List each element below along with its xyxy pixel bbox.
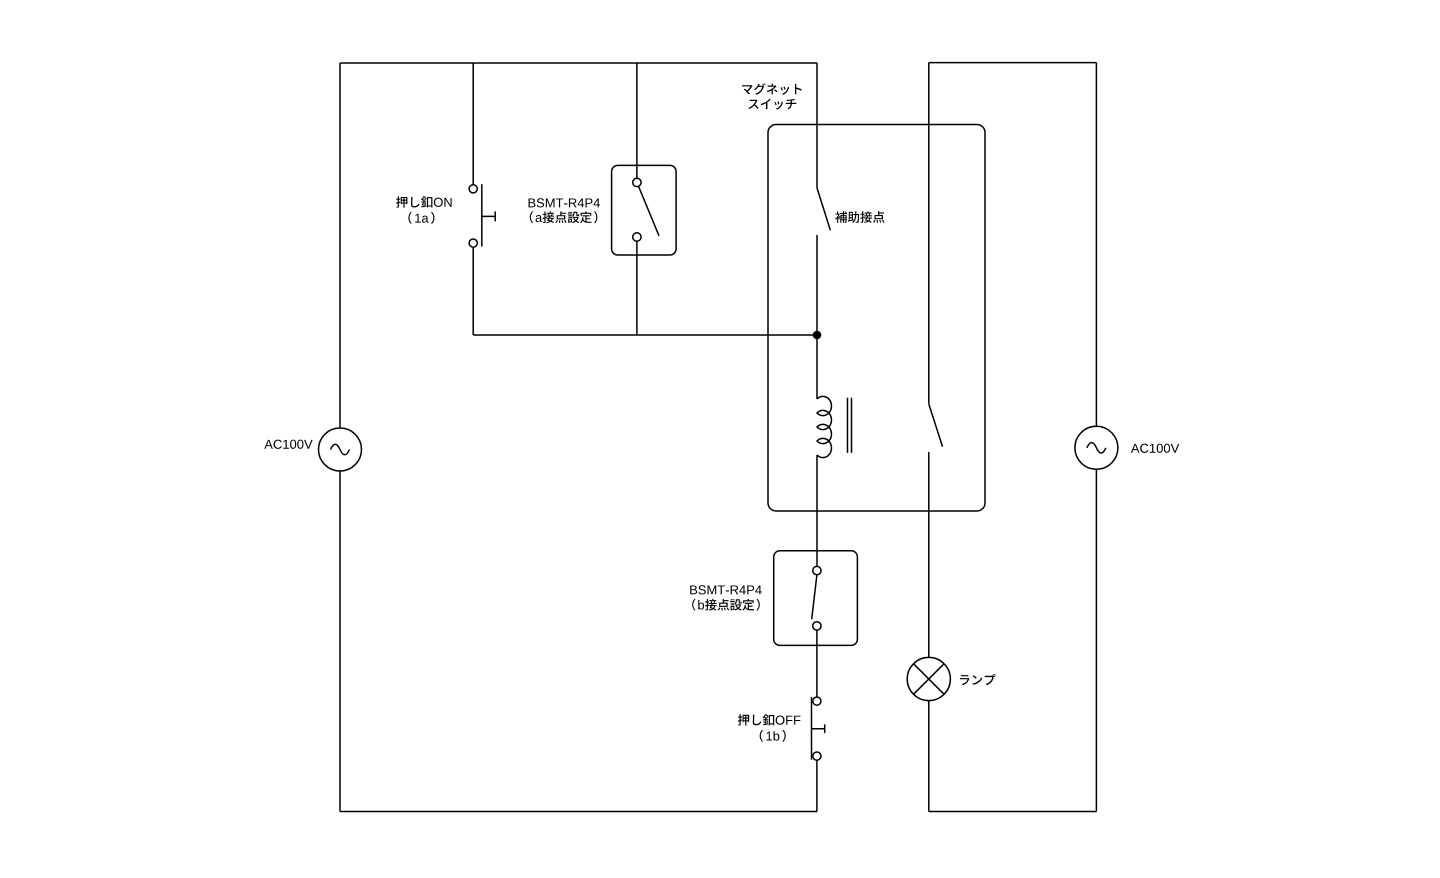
wire: ON button to bus xyxy=(472,247,474,335)
push button OFF (1b) movable bar (closed) xyxy=(811,697,813,760)
wire: main contact to lamp xyxy=(928,452,930,658)
label: ランプ xyxy=(960,674,996,685)
push button ON (1a) actuator xyxy=(482,211,495,221)
push button ON (1a) terminal circle lower xyxy=(469,239,477,247)
wire: right loop top bus xyxy=(929,62,1097,64)
magnet switch enclosure box xyxy=(768,125,985,512)
label: BSMT-R4P4 (b-contact) xyxy=(690,585,762,594)
wire: left loop top bus xyxy=(340,62,817,64)
wire: lamp to bottom bus xyxy=(928,701,930,812)
lamp cross xyxy=(914,664,945,695)
label: （1b） xyxy=(760,730,786,742)
relay a-contact terminal circle upper xyxy=(633,178,641,186)
wire: main rung from top bus down to auxiliary contact xyxy=(816,63,818,188)
label: 押し釦ON xyxy=(396,196,452,208)
wire: main contact rung upper xyxy=(928,63,930,404)
AC source V1 circle xyxy=(319,428,362,471)
wire: auxiliary contact to node and coil xyxy=(816,235,818,399)
main contact blade (open) xyxy=(929,404,943,447)
relay contact box BSMT-R4P4 (a) xyxy=(612,165,677,255)
relay b-contact terminal circle lower xyxy=(813,622,821,630)
wire: right loop bottom bus xyxy=(929,811,1097,813)
auxiliary contact blade (open) xyxy=(817,188,830,230)
label: スイッチ (line 2 of magnet switch label) xyxy=(748,99,796,110)
push button OFF (1b) terminal circle upper xyxy=(813,697,821,705)
wire: relay a-contact branch from top bus xyxy=(636,63,638,178)
label: （a接点設定） xyxy=(530,211,598,223)
push button OFF (1b) terminal circle lower xyxy=(813,752,821,760)
wire: ON button branch from top bus xyxy=(472,63,474,185)
wire: horizontal holding bus xyxy=(473,334,817,336)
relay a-contact blade (open) xyxy=(639,187,659,236)
label: BSMT-R4P4 (a-contact) xyxy=(529,198,601,207)
wire: right loop right side upper xyxy=(1095,63,1097,427)
relay contact box BSMT-R4P4 (b) xyxy=(774,551,858,646)
label: AC100V (left source) xyxy=(264,440,312,449)
AC source V1 sine xyxy=(331,444,350,455)
wire: left loop left side lower xyxy=(339,471,341,812)
push button OFF (1b) actuator xyxy=(812,724,825,733)
relay b-contact blade (closed) xyxy=(812,575,817,619)
wire: OFF button to bottom bus xyxy=(816,760,818,811)
node junction dot xyxy=(813,331,822,340)
wire: coil to b-contact box xyxy=(816,455,818,566)
lamp circle xyxy=(907,657,950,700)
label: マグネット (line 1 of magnet switch label) xyxy=(742,83,802,95)
coil MC winding xyxy=(817,396,831,457)
AC source V2 circle xyxy=(1075,426,1118,469)
label: AC100V (right source) xyxy=(1131,444,1179,453)
relay b-contact terminal circle upper xyxy=(813,566,821,574)
AC source V2 sine xyxy=(1087,443,1106,454)
relay a-contact terminal circle lower xyxy=(633,233,641,241)
push button ON (1a) movable bar xyxy=(481,184,483,246)
wire: right loop right side lower xyxy=(1095,469,1097,811)
coil core bars xyxy=(848,398,852,453)
wire: a-contact to bus xyxy=(636,241,638,335)
wire: left loop bottom xyxy=(340,811,817,813)
label: 押し釦OFF xyxy=(738,714,801,726)
wire: left loop left side upper xyxy=(339,63,341,428)
push button ON (1a) terminal circle upper xyxy=(469,185,477,193)
label: （1a） xyxy=(408,212,434,224)
label: 補助接点 xyxy=(835,211,884,223)
label: （b接点設定） xyxy=(692,599,760,611)
wire: b-contact to OFF button xyxy=(816,630,818,697)
